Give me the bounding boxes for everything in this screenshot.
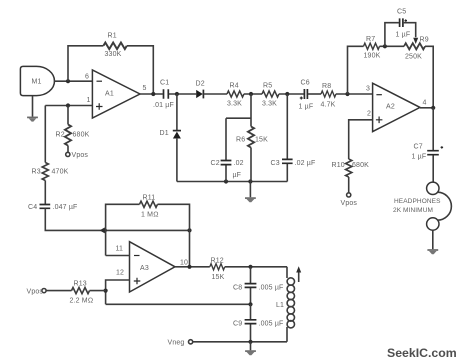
wire C2 top link xyxy=(226,117,251,119)
svg-text:2.2 MΩ: 2.2 MΩ xyxy=(70,298,94,305)
wire A1 pin 1 input xyxy=(45,105,92,107)
capacitor C6 xyxy=(299,80,314,111)
node junction R5/C3 xyxy=(285,92,289,96)
wire A3 output xyxy=(175,266,287,268)
wire R7/R9 loop xyxy=(348,46,434,108)
diode D2 xyxy=(196,81,205,99)
node junction R8/R7 loop xyxy=(345,92,349,96)
svg-text:.005 µF: .005 µF xyxy=(259,285,284,292)
node Vneg terminal circle xyxy=(189,340,193,344)
wire C2 branch xyxy=(225,118,227,181)
op-amp A3 xyxy=(116,242,189,292)
wire C9 branch xyxy=(250,304,252,342)
svg-text:.005 µF: .005 µF xyxy=(259,321,284,328)
svg-text:2K MINIMUM: 2K MINIMUM xyxy=(393,207,433,214)
node junction pin1/R2 xyxy=(66,103,70,107)
resistor R6 xyxy=(248,127,254,148)
svg-text:C2: C2 xyxy=(211,160,220,167)
wire D2 to R4 xyxy=(203,93,227,95)
wire A2 output xyxy=(420,107,433,109)
svg-text:Vpos: Vpos xyxy=(341,200,358,207)
svg-text:A2: A2 xyxy=(386,104,395,111)
resistor R1 xyxy=(103,43,126,50)
svg-text:C1: C1 xyxy=(160,80,169,87)
wire ground stem bottom xyxy=(250,342,252,351)
svg-text:C5: C5 xyxy=(397,9,406,16)
svg-text:C9: C9 xyxy=(233,321,242,328)
capacitor C8 xyxy=(245,284,257,288)
svg-text:SeekIC.com: SeekIC.com xyxy=(387,346,457,360)
svg-text:Vpos: Vpos xyxy=(27,289,44,296)
svg-text:11: 11 xyxy=(116,246,124,253)
svg-text:12: 12 xyxy=(116,270,124,277)
svg-text:10: 10 xyxy=(180,260,188,267)
plus input mark xyxy=(96,103,103,110)
node junction C4-wire/R11 left leg xyxy=(103,228,107,232)
capacitor C1 xyxy=(164,89,169,98)
plus input mark xyxy=(134,278,141,285)
node Vpos terminal circle (R10) xyxy=(347,193,351,197)
wire R3 branch down from pin1 wire xyxy=(44,106,46,205)
svg-text:A1: A1 xyxy=(105,91,114,98)
minus input mark xyxy=(97,80,103,82)
wire R6 branch xyxy=(250,94,252,182)
svg-text:C8: C8 xyxy=(233,285,242,292)
svg-text:1 µF: 1 µF xyxy=(412,154,427,161)
wire R8 to A2 pin 3 xyxy=(336,93,373,95)
svg-text:D1: D1 xyxy=(160,130,169,137)
inductor L1 xyxy=(276,267,294,342)
svg-text:A3: A3 xyxy=(140,265,149,272)
capacitor C3 xyxy=(282,159,293,163)
wire C8 branch xyxy=(250,267,252,305)
wire C1 to D2 xyxy=(169,93,196,95)
ground (bottom) xyxy=(245,351,256,355)
node junction R6/rail/ground xyxy=(248,179,252,183)
resistor R7 xyxy=(364,43,380,49)
svg-text:C6: C6 xyxy=(301,80,310,87)
svg-text:Vpos: Vpos xyxy=(72,152,89,159)
node junction C8/C9/wire xyxy=(248,302,252,306)
capacitor C5 xyxy=(396,9,411,39)
node junction R4/R5/R6 xyxy=(249,92,253,96)
wire pin12 node to C8/C9 midpoint xyxy=(106,303,251,305)
ground (middle) xyxy=(245,198,256,202)
microphone M1 xyxy=(20,66,54,95)
svg-text:4.7K: 4.7K xyxy=(321,102,336,109)
wire M1 ground stem xyxy=(32,96,34,117)
wire D1 branch xyxy=(176,94,178,182)
resistor R5 xyxy=(262,91,279,97)
arrow (tuning) above L1 xyxy=(296,266,301,282)
svg-text:3: 3 xyxy=(366,86,370,93)
wire R11 feedback loop xyxy=(106,204,190,266)
svg-text:R7: R7 xyxy=(366,36,375,43)
capacitor C9 xyxy=(245,320,257,324)
wire R5 to C6 xyxy=(279,93,304,95)
svg-text:L1: L1 xyxy=(276,302,284,309)
wire middle ground rail xyxy=(177,181,287,183)
svg-text:R12: R12 xyxy=(211,258,224,265)
minus input mark xyxy=(134,255,140,257)
svg-text:µF: µF xyxy=(233,172,242,179)
svg-text:1: 1 xyxy=(87,97,91,104)
plus input mark xyxy=(376,117,383,124)
diode D1 xyxy=(160,130,182,139)
wire A3 pin 11 xyxy=(106,255,130,257)
R9 wiper arrow xyxy=(413,38,418,44)
svg-text:M1: M1 xyxy=(32,79,42,86)
svg-text:1 MΩ: 1 MΩ xyxy=(141,212,159,219)
node junction R13/pin12 xyxy=(104,289,108,293)
capacitor C4 xyxy=(40,205,51,209)
wire A3 pin 12 xyxy=(106,280,130,304)
wire Vpos to R13 xyxy=(46,290,105,292)
svg-text:1 µF: 1 µF xyxy=(299,104,314,111)
node junction R7/R9/C5 xyxy=(383,44,387,48)
resistor R12 xyxy=(210,264,225,270)
svg-text:C3: C3 xyxy=(271,160,280,167)
resistor R2 xyxy=(65,125,71,146)
ground (below M1) xyxy=(27,117,38,121)
node Vpos terminal circle xyxy=(66,152,70,156)
svg-text:.02: .02 xyxy=(234,160,244,167)
resistor R9 (pot) xyxy=(404,43,425,49)
svg-text:15K: 15K xyxy=(255,137,268,144)
svg-text:470K: 470K xyxy=(52,169,69,176)
svg-text:250K: 250K xyxy=(405,54,422,61)
wire C5 loop xyxy=(385,23,416,47)
wire bottom rail Vneg to L1 xyxy=(193,341,287,343)
svg-text:C7: C7 xyxy=(414,144,423,151)
wire M1 output to A1 pin 6 xyxy=(54,80,93,82)
svg-text:R3: R3 xyxy=(32,169,41,176)
arrowhead on wire (pointing left) xyxy=(100,227,105,233)
node junction A3 out/R11 xyxy=(187,265,191,269)
wire R10 to Vpos xyxy=(348,177,350,193)
svg-text:D2: D2 xyxy=(196,81,205,88)
node Vpos terminal circle (R13) xyxy=(42,289,46,293)
svg-text:6: 6 xyxy=(85,74,89,81)
wire R4 to R5 xyxy=(244,93,262,95)
svg-text:3.3K: 3.3K xyxy=(262,101,277,108)
svg-text:2: 2 xyxy=(367,111,371,118)
svg-text:680K: 680K xyxy=(73,132,90,139)
wire C7 branch xyxy=(432,108,434,182)
capacitor C2 xyxy=(221,161,232,165)
svg-text:330K: 330K xyxy=(105,51,122,58)
op-amp A1 xyxy=(85,70,147,118)
svg-text:Vneg: Vneg xyxy=(168,340,185,347)
svg-text:C4: C4 xyxy=(28,204,37,211)
wire ground stem middle xyxy=(249,182,251,198)
capacitor C7 xyxy=(412,144,444,161)
svg-text:R1: R1 xyxy=(108,33,117,40)
svg-text:5: 5 xyxy=(143,85,147,92)
ground (headphones) xyxy=(427,250,438,254)
node junction R12/C8 xyxy=(248,265,252,269)
wire C3 branch xyxy=(286,94,288,182)
resistor R11 xyxy=(140,201,158,207)
node junction C9/ground on bottom rail xyxy=(248,340,252,344)
svg-text:.047 µF: .047 µF xyxy=(53,204,78,211)
wire C4 to A3 network xyxy=(45,208,189,230)
resistor R3 xyxy=(42,163,48,181)
resistor R8 xyxy=(321,91,336,97)
svg-text:15K: 15K xyxy=(212,274,225,281)
svg-text:1 µF: 1 µF xyxy=(396,32,411,39)
svg-text:R4: R4 xyxy=(230,83,239,90)
svg-text:R2: R2 xyxy=(56,132,65,139)
headphones jack xyxy=(393,182,451,230)
svg-text:3.3K: 3.3K xyxy=(227,101,242,108)
node junction C1/D1 branch xyxy=(175,92,179,96)
svg-text:R10: R10 xyxy=(332,162,345,169)
resistor R13 xyxy=(72,288,90,294)
svg-text:R6: R6 xyxy=(236,137,245,144)
svg-text:R9: R9 xyxy=(420,37,429,44)
resistor R4 xyxy=(227,91,244,97)
svg-text:R8: R8 xyxy=(322,83,331,90)
wire A2 pin 2 xyxy=(349,120,373,159)
wire R2 branch xyxy=(67,106,69,153)
minus input mark xyxy=(376,94,382,96)
svg-text:HEADPHONES: HEADPHONES xyxy=(394,198,441,205)
wire R1 feedback loop xyxy=(68,46,153,94)
node junction C2/rail xyxy=(224,179,228,183)
resistor R10 xyxy=(346,159,352,177)
node junction A2 out/R9 loop/C7 xyxy=(431,106,435,110)
node junction M1/R1/pin6 xyxy=(66,79,70,83)
svg-text:.02 µF: .02 µF xyxy=(295,160,316,167)
wire A1 output to C1 xyxy=(140,93,163,95)
op-amp A2 xyxy=(366,83,427,131)
svg-text:4: 4 xyxy=(423,100,427,107)
node junction A1 out/R1 xyxy=(151,92,155,96)
svg-text:680K: 680K xyxy=(352,162,369,169)
svg-text:R5: R5 xyxy=(263,83,272,90)
svg-text:R11: R11 xyxy=(143,195,156,202)
wire headphones to ground xyxy=(432,230,434,249)
wire C6 to R8 xyxy=(308,93,321,95)
svg-text:R13: R13 xyxy=(74,281,87,288)
svg-text:.01 µF: .01 µF xyxy=(153,102,174,109)
svg-text:190K: 190K xyxy=(364,53,381,60)
node junction C4-wire/R11 right leg xyxy=(187,228,191,232)
